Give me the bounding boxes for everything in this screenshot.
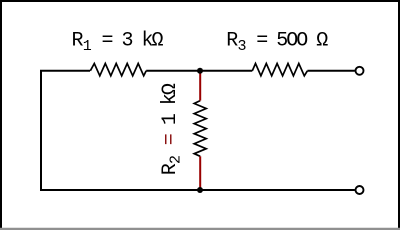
svg-text:= 5OO Ω: = 5OO Ω — [256, 30, 328, 53]
svg-text:= 3 kΩ: = 3 kΩ — [102, 30, 164, 53]
svg-text:= 1 kΩ: = 1 kΩ — [159, 83, 182, 145]
svg-text:2: 2 — [167, 155, 184, 164]
svg-text:3: 3 — [238, 38, 247, 55]
svg-text:1: 1 — [83, 38, 92, 55]
